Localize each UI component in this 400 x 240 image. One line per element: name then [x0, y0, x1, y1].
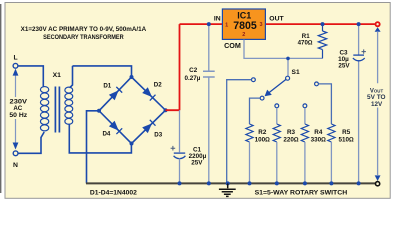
svg-text:0.27µ: 0.27µ — [185, 75, 201, 82]
svg-text:SECONDARY TRANSFORMER: SECONDARY TRANSFORMER — [43, 34, 124, 41]
svg-text:X1: X1 — [53, 72, 62, 79]
svg-text:R3: R3 — [287, 129, 296, 136]
svg-text:S1: S1 — [292, 69, 300, 76]
svg-text:510Ω: 510Ω — [339, 137, 355, 144]
svg-text:COM: COM — [224, 43, 241, 50]
svg-text:S1=5-WAY ROTARY SWITCH: S1=5-WAY ROTARY SWITCH — [255, 190, 348, 197]
svg-text:D2: D2 — [154, 82, 162, 89]
svg-text:X1=230V AC PRIMARY TO 0-9V, 50: X1=230V AC PRIMARY TO 0-9V, 500mA/1A — [21, 26, 147, 33]
svg-text:100Ω: 100Ω — [255, 137, 271, 144]
svg-text:25V: 25V — [338, 63, 350, 70]
svg-text:220Ω: 220Ω — [283, 137, 299, 144]
svg-text:470Ω: 470Ω — [298, 40, 313, 47]
svg-text:IN: IN — [214, 16, 221, 23]
svg-text:25V: 25V — [191, 160, 203, 167]
svg-text:D4: D4 — [102, 130, 110, 137]
svg-text:50 Hz: 50 Hz — [9, 112, 27, 119]
svg-text:330Ω: 330Ω — [311, 137, 327, 144]
svg-text:3: 3 — [259, 22, 262, 28]
svg-text:12V: 12V — [371, 101, 383, 108]
svg-text:N: N — [13, 162, 18, 169]
svg-text:C2: C2 — [189, 67, 198, 74]
svg-text:7805: 7805 — [233, 20, 257, 32]
svg-text:2: 2 — [242, 32, 245, 38]
svg-text:D1-D4=1N4002: D1-D4=1N4002 — [90, 190, 138, 197]
svg-text:R2: R2 — [258, 129, 267, 136]
svg-text:R5: R5 — [342, 129, 351, 136]
svg-text:1: 1 — [225, 23, 228, 29]
svg-text:OUT: OUT — [269, 16, 284, 23]
svg-text:L: L — [14, 54, 18, 61]
svg-text:D3: D3 — [154, 132, 162, 139]
svg-text:R4: R4 — [314, 129, 323, 136]
svg-text:D1: D1 — [103, 82, 111, 89]
